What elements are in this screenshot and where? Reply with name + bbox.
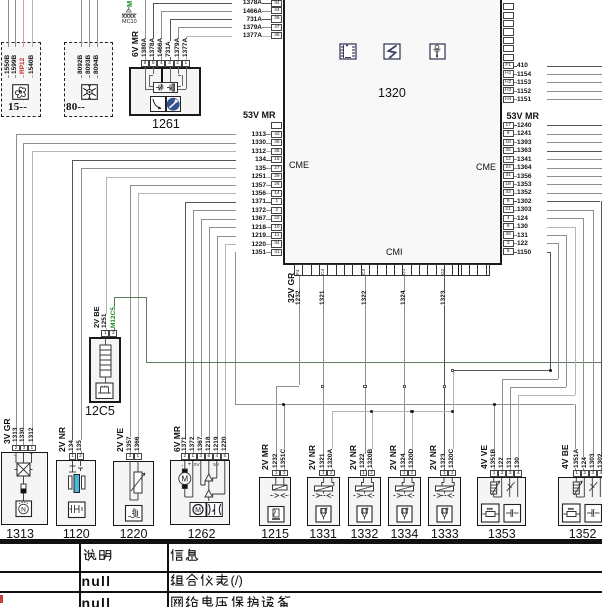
svg-text:M: M: [195, 507, 201, 514]
svg-text:N: N: [21, 506, 26, 513]
svg-text:M: M: [181, 475, 188, 484]
